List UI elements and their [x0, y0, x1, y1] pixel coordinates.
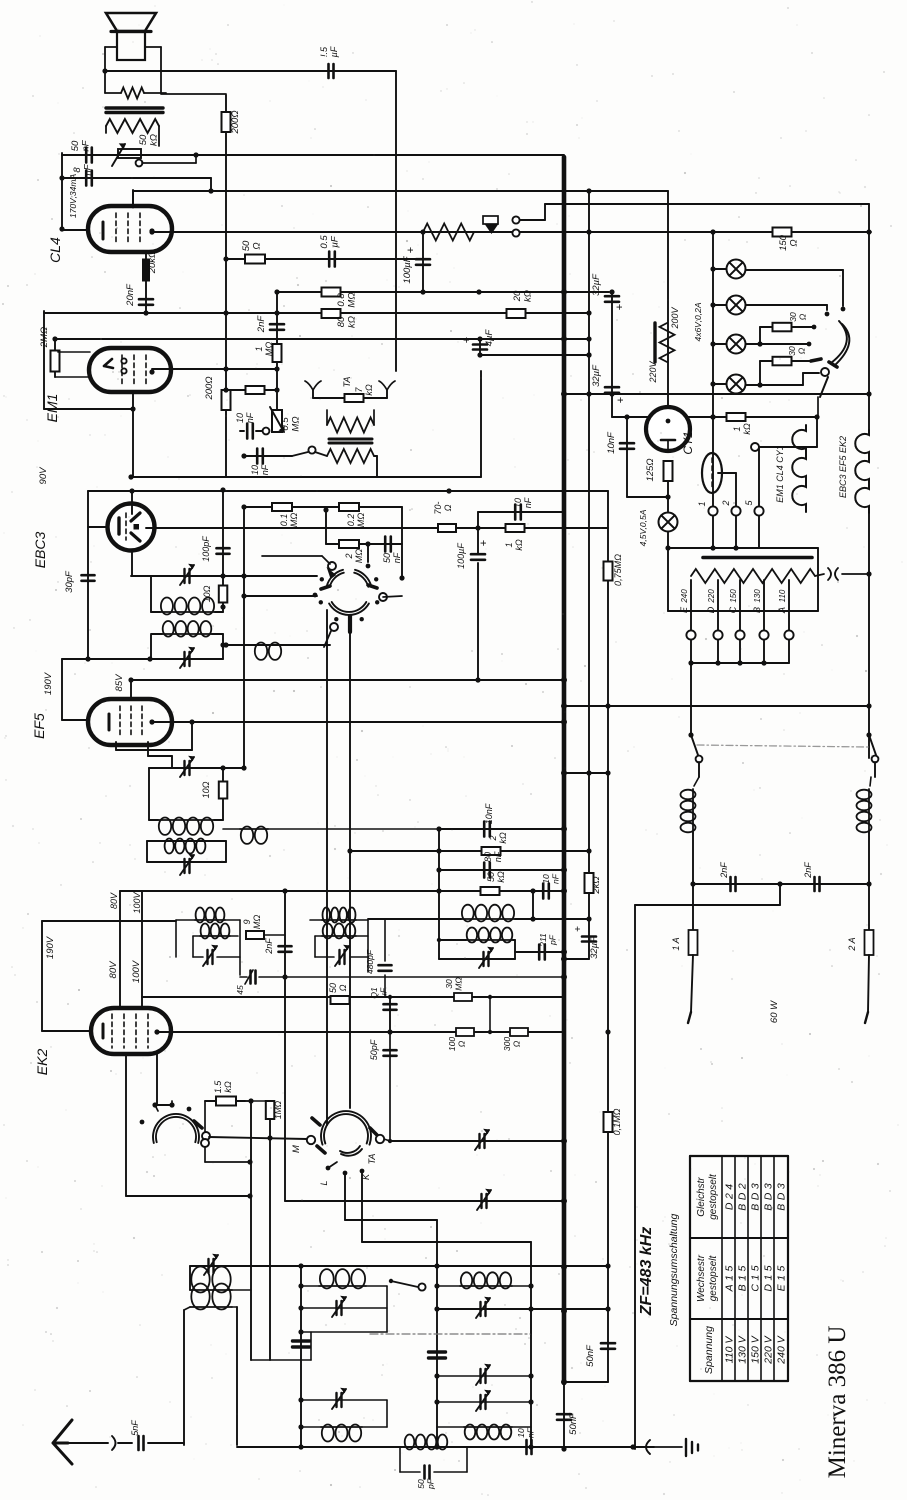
svg-text:4µF: 4µF	[484, 329, 495, 347]
svg-text:30pF: 30pF	[64, 570, 75, 593]
svg-text:0,1MΩ: 0,1MΩ	[612, 1108, 622, 1135]
svg-text:Q1: Q1	[369, 987, 379, 999]
svg-text:pF: pF	[548, 934, 558, 946]
svg-text:220 V: 220 V	[763, 1335, 775, 1364]
svg-text:240 V: 240 V	[776, 1335, 788, 1364]
svg-text:32µF: 32µF	[591, 273, 602, 296]
svg-text:Wechsestr: Wechsestr	[696, 1254, 707, 1302]
svg-text:32µF: 32µF	[589, 936, 600, 959]
svg-text:!.5: !.5	[319, 46, 329, 57]
svg-text:2: 2	[344, 553, 354, 559]
svg-text:50nF: 50nF	[568, 1412, 579, 1435]
svg-text:µF: µF	[379, 987, 389, 998]
svg-text:211: 211	[538, 933, 548, 948]
svg-text:+: +	[614, 304, 626, 310]
svg-text:MΩ: MΩ	[347, 292, 358, 307]
svg-text:Ω: Ω	[797, 347, 807, 354]
svg-text:nF: nF	[81, 139, 92, 151]
svg-text:nF: nF	[245, 412, 255, 423]
svg-text:32µF: 32µF	[591, 364, 602, 387]
svg-text:+: +	[573, 926, 584, 932]
svg-text:B D 3: B D 3	[750, 1183, 762, 1211]
svg-text:80V: 80V	[109, 892, 119, 909]
svg-text:100V: 100V	[132, 891, 142, 913]
svg-text:130: 130	[753, 589, 762, 603]
svg-text:150 V: 150 V	[750, 1335, 762, 1363]
svg-text:50: 50	[70, 140, 81, 151]
svg-text:D 2 4: D 2 4	[724, 1184, 736, 1210]
svg-text:100µF: 100µF	[456, 543, 466, 569]
svg-text:190V: 190V	[43, 671, 54, 695]
svg-text:B D 3: B D 3	[776, 1183, 788, 1211]
svg-text:220: 220	[707, 589, 716, 604]
svg-text:0.5: 0.5	[280, 417, 291, 431]
svg-text:Spannung: Spannung	[703, 1326, 715, 1374]
svg-text:MΩ: MΩ	[356, 513, 366, 527]
svg-text:9: 9	[242, 919, 252, 924]
svg-text:kΩ: kΩ	[223, 1081, 233, 1093]
svg-text:10: 10	[516, 1428, 526, 1438]
svg-text:10: 10	[541, 874, 551, 884]
svg-text:200V: 200V	[670, 306, 680, 329]
svg-text:1: 1	[254, 346, 264, 351]
svg-text:CY1: CY1	[681, 431, 695, 454]
svg-text:0.5: 0.5	[319, 235, 330, 249]
svg-text:Minerva 386 U: Minerva 386 U	[824, 1326, 851, 1479]
svg-text:8: 8	[72, 167, 83, 173]
svg-text:70-: 70-	[433, 501, 443, 514]
svg-text:E: E	[679, 606, 689, 613]
svg-text:+: +	[405, 247, 417, 253]
svg-text:85V: 85V	[114, 673, 125, 692]
svg-text:gestopselt: gestopselt	[708, 1173, 719, 1220]
svg-text:2: 2	[721, 500, 731, 506]
svg-text:0.2: 0.2	[346, 514, 356, 527]
svg-text:1 A: 1 A	[671, 937, 681, 950]
svg-text:µF: µF	[330, 235, 341, 247]
svg-text:170V;34mA: 170V;34mA	[68, 174, 78, 219]
svg-text:B: B	[752, 607, 762, 613]
svg-text:Ω: Ω	[512, 1040, 522, 1047]
svg-text:130 V: 130 V	[737, 1335, 749, 1363]
svg-text:2 A: 2 A	[847, 937, 857, 951]
svg-text:20nF: 20nF	[125, 283, 136, 307]
svg-text:pF: pF	[426, 1478, 436, 1490]
svg-text:Ω: Ω	[457, 1040, 467, 1047]
svg-text:B D 3: B D 3	[763, 1183, 775, 1211]
svg-text:kΩ: kΩ	[347, 316, 358, 328]
svg-text:1: 1	[697, 501, 707, 506]
svg-text:2kΩ: 2kΩ	[591, 876, 602, 894]
svg-text:EBC3 EF5 EK2: EBC3 EF5 EK2	[838, 436, 848, 498]
svg-text:110 V: 110 V	[724, 1336, 736, 1364]
svg-text:100pF: 100pF	[201, 536, 211, 562]
svg-text:480pF: 480pF	[365, 949, 375, 974]
svg-text:4,5V,0,5A: 4,5V,0,5A	[638, 509, 648, 546]
svg-text:TA: TA	[367, 1154, 377, 1165]
svg-text:50: 50	[382, 553, 392, 563]
svg-text:D: D	[706, 606, 716, 613]
svg-text:nF: nF	[523, 497, 533, 508]
svg-text:220V: 220V	[648, 360, 658, 383]
svg-text:30: 30	[787, 346, 797, 356]
svg-text:nF: nF	[83, 163, 94, 175]
svg-text:10nF: 10nF	[484, 803, 494, 824]
svg-text:1: 1	[504, 542, 514, 547]
svg-text:90V: 90V	[38, 466, 49, 485]
svg-text:kΩ: kΩ	[514, 539, 524, 551]
svg-text:B D 2: B D 2	[737, 1183, 749, 1211]
svg-text:E 1 5: E 1 5	[776, 1265, 788, 1291]
svg-text:Spannungsumschaltung: Spannungsumschaltung	[668, 1214, 680, 1327]
svg-text:240: 240	[680, 589, 689, 604]
svg-text:50: 50	[416, 1479, 426, 1489]
svg-text:100: 100	[447, 1037, 457, 1051]
svg-text:kΩ: kΩ	[364, 384, 374, 396]
svg-text:MΩ: MΩ	[252, 915, 262, 929]
svg-text:+: +	[461, 337, 473, 343]
svg-text:1: 1	[732, 426, 742, 431]
svg-text:45: 45	[235, 985, 245, 995]
svg-text:125Ω: 125Ω	[645, 458, 656, 481]
svg-text:kΩ: kΩ	[149, 134, 160, 146]
svg-text:50: 50	[138, 134, 149, 145]
svg-text:2nF: 2nF	[719, 862, 729, 879]
svg-text:MΩ: MΩ	[454, 977, 464, 991]
svg-text:Ω: Ω	[252, 242, 263, 249]
svg-text:kΩ: kΩ	[742, 423, 752, 435]
svg-text:MΩ: MΩ	[291, 416, 302, 431]
svg-text:100V: 100V	[131, 959, 142, 983]
svg-text:10Ω: 10Ω	[201, 781, 211, 798]
svg-text:nF: nF	[493, 851, 503, 862]
svg-text:30: 30	[788, 312, 798, 322]
svg-text:Gleichstr: Gleichstr	[696, 1177, 707, 1217]
svg-text:4x6V;0,2A: 4x6V;0,2A	[693, 302, 703, 341]
svg-text:EM1: EM1	[44, 394, 60, 423]
svg-text:C: C	[728, 606, 738, 613]
svg-text:µF: µF	[329, 46, 339, 57]
svg-text:0.8: 0.8	[336, 293, 347, 307]
svg-text:10: 10	[235, 413, 245, 423]
svg-text:kΩ: kΩ	[498, 832, 508, 844]
svg-text:EM1 CL4 CY1: EM1 CL4 CY1	[775, 445, 785, 503]
svg-text:60 W: 60 W	[769, 1000, 780, 1023]
svg-text:2MΩ: 2MΩ	[39, 327, 50, 348]
svg-text:20kΩ: 20kΩ	[147, 251, 158, 275]
svg-text:2nF: 2nF	[803, 862, 813, 879]
svg-text:A: A	[777, 607, 787, 614]
svg-text:2nF: 2nF	[256, 315, 267, 334]
svg-text:80: 80	[483, 852, 493, 862]
svg-text:nF: nF	[551, 873, 561, 884]
svg-text:80V: 80V	[108, 960, 119, 979]
svg-text:MΩ: MΩ	[289, 513, 299, 527]
svg-text:Ω: Ω	[789, 239, 800, 246]
svg-text:1MΩ: 1MΩ	[273, 1100, 283, 1119]
svg-text:nF: nF	[260, 464, 270, 475]
svg-text:CL4: CL4	[47, 237, 63, 263]
svg-text:200Ω: 200Ω	[230, 110, 241, 134]
svg-text:ZF=483 kHz: ZF=483 kHz	[638, 1227, 655, 1316]
svg-text:gestopselt: gestopselt	[708, 1254, 719, 1301]
svg-text:50pF: 50pF	[369, 1039, 379, 1060]
svg-text:100µF: 100µF	[402, 255, 413, 283]
svg-text:nF: nF	[392, 552, 402, 563]
svg-text:30: 30	[444, 979, 454, 989]
svg-text:200Ω: 200Ω	[204, 376, 215, 400]
svg-text:50nF: 50nF	[585, 1344, 596, 1367]
svg-text:L: L	[319, 1180, 329, 1185]
svg-text:300: 300	[502, 1037, 512, 1051]
svg-text:1.5: 1.5	[213, 1080, 223, 1094]
svg-text:50: 50	[241, 240, 252, 251]
svg-text:EF5: EF5	[31, 713, 47, 739]
svg-text:+: +	[615, 397, 627, 403]
svg-text:0,75MΩ: 0,75MΩ	[613, 554, 623, 586]
svg-text:Ω: Ω	[798, 313, 808, 320]
svg-text:2: 2	[488, 835, 498, 841]
svg-text:5nF: 5nF	[130, 1420, 140, 1436]
svg-text:MΩ: MΩ	[354, 549, 364, 563]
svg-text:2nF: 2nF	[264, 938, 274, 955]
svg-text:D 1 5: D 1 5	[763, 1265, 775, 1291]
svg-text:A 1 5: A 1 5	[724, 1265, 736, 1292]
svg-text:0.1: 0.1	[279, 514, 289, 527]
svg-text:kΩ: kΩ	[496, 871, 506, 883]
svg-text:190V: 190V	[45, 935, 56, 959]
svg-text:10nF: 10nF	[606, 431, 617, 454]
svg-text:10: 10	[250, 465, 260, 475]
svg-text:110: 110	[778, 589, 787, 602]
svg-text:C 1 5: C 1 5	[750, 1265, 762, 1291]
svg-text:nF: nF	[526, 1427, 536, 1438]
svg-text:B 1 5: B 1 5	[737, 1265, 749, 1291]
svg-text:EK2: EK2	[34, 1049, 50, 1076]
svg-text:+: +	[478, 540, 490, 546]
svg-text:150: 150	[729, 589, 738, 603]
svg-text:M: M	[291, 1145, 302, 1153]
svg-text:EBC3: EBC3	[32, 532, 48, 569]
svg-text:Ω: Ω	[443, 504, 453, 511]
svg-text:80: 80	[336, 316, 347, 327]
svg-text:50: 50	[486, 872, 496, 882]
svg-text:50: 50	[328, 983, 338, 993]
svg-text:10: 10	[513, 498, 523, 508]
svg-text:Ω: Ω	[338, 984, 348, 991]
svg-text:150: 150	[778, 234, 789, 251]
svg-text:MΩ: MΩ	[264, 342, 274, 356]
